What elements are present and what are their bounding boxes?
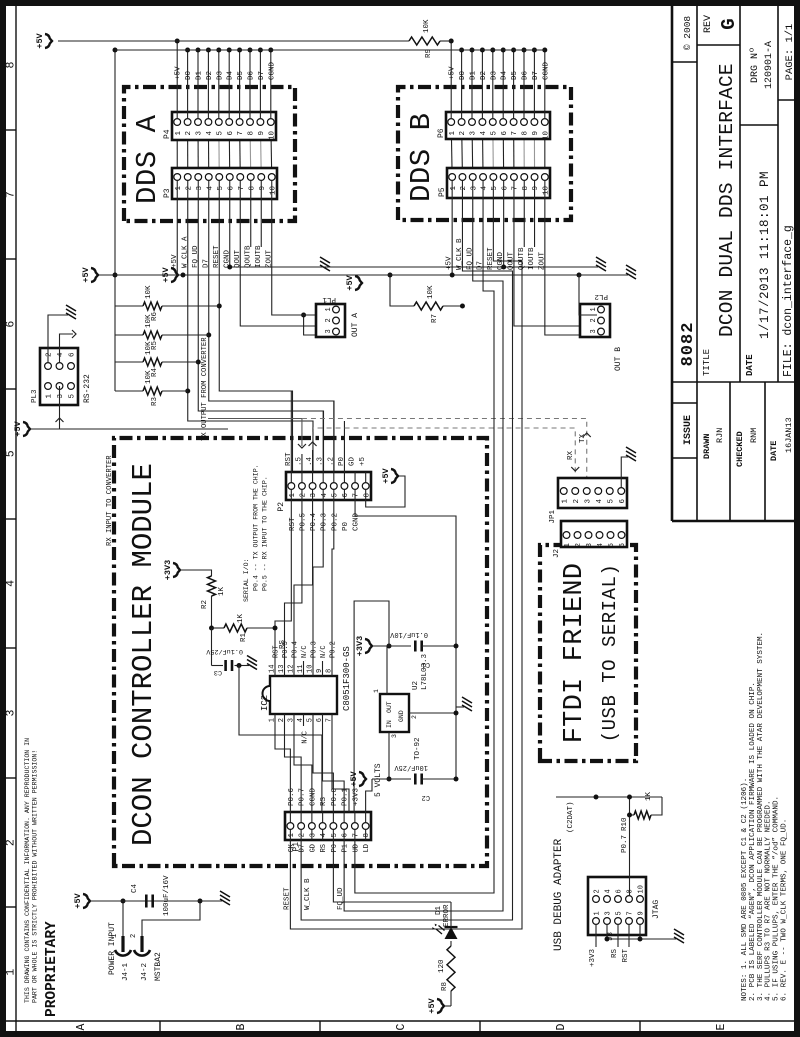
regulator U2 L78L03.3	[373, 653, 429, 760]
wire P2 pin1 to IC2	[275, 500, 291, 661]
svg-text:4: 4	[481, 186, 489, 191]
wire C3 node to P1 RS	[239, 666, 322, 813]
svg-text:2: 2	[325, 318, 333, 322]
svg-text:RS: RS	[320, 796, 328, 806]
svg-text:B: B	[235, 1023, 248, 1030]
svg-text:RS: RS	[320, 844, 328, 852]
svg-text:CGND: CGND	[353, 512, 361, 531]
wire IOUTB B	[534, 198, 536, 247]
svg-text:U2: U2	[412, 681, 420, 690]
IC2 pins	[269, 641, 338, 743]
svg-text:3: 3	[310, 493, 318, 498]
svg-text:J4-1: J4-1	[122, 962, 130, 981]
wire P2 pin2 to IC2	[285, 500, 302, 661]
svg-text:4: 4	[5, 580, 18, 587]
title block texts	[679, 15, 796, 467]
svg-text:7: 7	[352, 833, 360, 838]
svg-text:D1: D1	[470, 70, 478, 80]
svg-text:D: D	[555, 1023, 568, 1030]
svg-text:8: 8	[248, 131, 256, 136]
svg-text:1: 1	[288, 833, 296, 838]
svg-text:N/C: N/C	[301, 645, 309, 658]
svg-text:TO-92: TO-92	[414, 737, 422, 760]
svg-text:2: 2	[185, 186, 193, 191]
svg-text:1K: 1K	[218, 586, 226, 596]
wire P5 +5V	[451, 198, 453, 275]
resistor R9 10K	[380, 19, 451, 58]
svg-text:4: 4	[297, 718, 305, 722]
connector J4-2 pin	[130, 934, 150, 956]
svg-text:TX OUTPUT FROM CONVERTER: TX OUTPUT FROM CONVERTER	[201, 337, 209, 441]
wire FQ_UD A	[196, 199, 324, 472]
svg-text:C4: C4	[131, 883, 139, 893]
svg-text:120: 120	[438, 959, 446, 973]
svg-text:P0.7: P0.7	[299, 788, 307, 806]
svg-text:LD: LD	[363, 844, 371, 852]
wire RESET A	[217, 199, 293, 472]
svg-text:5 VOLTS: 5 VOLTS	[374, 763, 383, 797]
svg-text:P0.4: P0.4	[310, 512, 318, 531]
power +5V input	[73, 892, 90, 908]
svg-text:DATE: DATE	[769, 441, 779, 461]
connector P3	[172, 168, 277, 199]
svg-text:D3: D3	[216, 70, 224, 80]
svg-text:RX: RX	[567, 450, 575, 460]
svg-text:10: 10	[542, 131, 550, 141]
svg-text:D0: D0	[185, 70, 193, 80]
DDS A module dashed box	[124, 87, 295, 221]
svg-text:10: 10	[542, 186, 550, 196]
svg-text:PL1: PL1	[322, 295, 336, 303]
wire power rail	[90, 900, 222, 902]
svg-text:D3: D3	[490, 70, 498, 80]
svg-text:W_CLK B: W_CLK B	[304, 878, 312, 910]
svg-text:R10: R10	[621, 817, 629, 831]
power +5V converter	[13, 420, 30, 436]
svg-text:(C2DAT): (C2DAT)	[567, 801, 575, 833]
svg-text:R5: R5	[151, 341, 159, 351]
wire U2 GND	[409, 707, 464, 716]
svg-text:7: 7	[5, 191, 18, 198]
svg-text:13: 13	[278, 665, 286, 673]
svg-text:+3V3: +3V3	[589, 949, 597, 968]
svg-text:D4: D4	[227, 70, 235, 80]
wire ZOUT B	[545, 198, 597, 335]
svg-text:PAGE: 1/1: PAGE: 1/1	[784, 24, 796, 81]
svg-text:D7: D7	[299, 844, 307, 852]
LED D1	[432, 924, 457, 939]
power +5V top rail	[35, 32, 52, 48]
svg-text:+5V: +5V	[427, 997, 437, 1013]
svg-text:9: 9	[638, 911, 646, 915]
svg-text:R1: R1	[240, 633, 248, 643]
connector J4-1 pin	[111, 934, 131, 956]
svg-text:D6: D6	[522, 70, 530, 80]
serial io note	[243, 464, 269, 602]
resistor R3 10K	[115, 370, 188, 406]
wire IC2 pin3 to P1	[294, 726, 312, 812]
svg-text:2: 2	[130, 934, 138, 938]
svg-text:R3: R3	[151, 397, 159, 407]
resistor R5 10K	[115, 314, 209, 350]
svg-text:6: 6	[501, 186, 509, 191]
dashed RX trunk	[302, 419, 591, 482]
svg-text:TITLE: TITLE	[702, 349, 712, 376]
svg-text:P5: P5	[438, 187, 447, 197]
svg-text:P0: P0	[342, 521, 350, 531]
svg-text:P0.5 -- RX INPUT TO THE CHIP.: P0.5 -- RX INPUT TO THE CHIP.	[262, 476, 269, 591]
svg-text:6: 6	[227, 131, 235, 136]
+5V trunk	[115, 273, 628, 316]
svg-text:1: 1	[5, 969, 18, 976]
connector J2	[561, 521, 627, 548]
svg-text:C1: C1	[422, 660, 430, 668]
svg-text:MSTBA2: MSTBA2	[154, 952, 163, 981]
svg-text:3: 3	[325, 329, 333, 333]
wire QOUTB B	[523, 198, 525, 247]
svg-text:2: 2	[299, 833, 307, 838]
svg-text:1: 1	[269, 718, 277, 722]
svg-text:TX: TX	[579, 433, 587, 443]
svg-text:DRAWN: DRAWN	[702, 433, 712, 459]
power +3V3 main	[355, 636, 372, 656]
svg-text:P0.4 -- TX OUTPUT FROM THE CHI: P0.4 -- TX OUTPUT FROM THE CHIP.	[253, 464, 260, 591]
svg-text:3: 3	[57, 394, 65, 399]
svg-text:2: 2	[46, 352, 54, 357]
svg-text:P0.7: P0.7	[621, 835, 629, 853]
wire IOUTB A	[260, 199, 262, 247]
capacitor C1	[389, 630, 458, 668]
svg-text:2. PCB IS LABELED “AGEN”, DCON: 2. PCB IS LABELED “AGEN”, DCON APPLICATI…	[749, 682, 757, 1001]
power +5V DDS B	[345, 274, 362, 290]
svg-text:D7: D7	[258, 71, 266, 80]
svg-text:7: 7	[512, 186, 520, 191]
svg-text:10K: 10K	[145, 285, 153, 299]
wire J3 RS	[611, 924, 619, 958]
svg-text:R2: R2	[201, 600, 209, 609]
connector P6	[446, 112, 550, 140]
wire P2 pin4 to IC2	[313, 500, 323, 661]
svg-text:4: 4	[320, 833, 328, 838]
wire +3V3 node	[372, 645, 411, 647]
svg-text:5: 5	[616, 911, 624, 915]
DDS B module dashed box	[398, 87, 571, 220]
wire IC2 pin2 to P1	[285, 726, 302, 812]
wire P2 RST out	[290, 391, 292, 472]
svg-text:2: 2	[411, 715, 418, 719]
svg-text:CGND: CGND	[542, 61, 550, 80]
power +5V DDS A	[161, 266, 178, 282]
svg-text:10: 10	[307, 665, 315, 673]
resistor R2 1K	[180, 570, 226, 628]
svg-text:R8: R8	[441, 982, 449, 991]
svg-text:+5V: +5V	[345, 274, 355, 290]
svg-text:3: 3	[196, 186, 204, 191]
svg-text:P0.2: P0.2	[330, 641, 338, 658]
svg-text:P6: P6	[437, 128, 446, 138]
svg-text:OUT: OUT	[386, 701, 393, 713]
svg-text:7: 7	[326, 718, 334, 722]
svg-text:0.1uF/25V: 0.1uF/25V	[205, 647, 243, 655]
svg-text:7: 7	[238, 186, 246, 191]
svg-text:ERROR: ERROR	[443, 904, 451, 927]
capacitor C4	[131, 875, 171, 916]
svg-text:8: 8	[522, 131, 530, 136]
wire P0.0 to LED	[333, 840, 451, 902]
svg-text:1: 1	[594, 911, 602, 915]
svg-text:10uF/25V: 10uF/25V	[394, 763, 428, 771]
solid RX from converter	[208, 419, 302, 447]
svg-text:4: 4	[321, 493, 329, 498]
svg-text:9: 9	[532, 131, 540, 136]
svg-text:5: 5	[331, 833, 339, 838]
svg-text:FTDI FRIEND: FTDI FRIEND	[560, 563, 590, 743]
connector PL1	[316, 304, 345, 337]
svg-text:RS-232: RS-232	[83, 374, 92, 403]
PL3 labels	[31, 374, 92, 403]
svg-text:1: 1	[46, 394, 54, 399]
wire QOUT B	[514, 198, 597, 326]
svg-text:+5V: +5V	[35, 32, 45, 48]
svg-text:IOUTB: IOUTB	[255, 245, 263, 268]
wire RESET out	[283, 198, 522, 929]
svg-text:6: 6	[501, 131, 509, 136]
svg-text:JTAG: JTAG	[652, 900, 661, 919]
wire P2 CGND down	[355, 500, 456, 601]
P2 pin labels	[285, 452, 367, 531]
svg-text:DATE: DATE	[745, 354, 755, 376]
svg-text:7: 7	[627, 911, 635, 915]
svg-text:2: 2	[575, 543, 583, 548]
J3 labels	[607, 900, 661, 941]
svg-text:9: 9	[258, 131, 266, 136]
svg-text:FQ_UD: FQ_UD	[337, 887, 345, 910]
svg-text:PROPRIETARY: PROPRIETARY	[44, 921, 60, 1017]
svg-text:D5: D5	[237, 70, 245, 80]
svg-text:© 2008: © 2008	[682, 16, 693, 51]
LED labels	[435, 904, 451, 927]
svg-text:2: 2	[590, 318, 598, 322]
svg-text:C3: C3	[214, 668, 222, 676]
svg-text:USB DEBUG ADAPTER: USB DEBUG ADAPTER	[553, 838, 565, 951]
svg-text:P2: P2	[277, 502, 286, 512]
svg-text:5: 5	[608, 543, 616, 548]
svg-text:POWER INPUT: POWER INPUT	[108, 922, 117, 975]
svg-text:3: 3	[586, 543, 594, 548]
svg-text:2: 2	[278, 718, 286, 722]
svg-text:12: 12	[288, 665, 296, 673]
wire P2 P0.2 out	[333, 401, 335, 472]
svg-text:PL2: PL2	[594, 292, 608, 300]
svg-text:P0.0: P0.0	[331, 787, 339, 806]
svg-text:QOUTB: QOUTB	[244, 245, 252, 268]
svg-text:5: 5	[216, 131, 224, 136]
power +5V pullups	[81, 266, 98, 282]
svg-text:NOTES: 1. ALL SMD ARE 0805 EXC: NOTES: 1. ALL SMD ARE 0805 EXCEPT C1 & C…	[741, 778, 749, 1001]
svg-text:10K: 10K	[427, 285, 435, 299]
proprietary text	[24, 738, 60, 1017]
data bus rail	[115, 49, 545, 51]
svg-text:2: 2	[460, 186, 468, 191]
connector P5	[447, 168, 550, 198]
svg-text:DRG Nº: DRG Nº	[750, 47, 761, 83]
svg-text:6: 6	[5, 321, 18, 328]
svg-text:DDS B: DDS B	[405, 112, 438, 202]
svg-text:A: A	[75, 1023, 88, 1030]
svg-text:8: 8	[363, 493, 371, 498]
svg-text:GD: GD	[349, 456, 357, 466]
svg-text:P3: P3	[163, 188, 172, 198]
svg-text:5: 5	[307, 718, 315, 722]
svg-text:R7: R7	[431, 314, 439, 323]
svg-text:120901-A: 120901-A	[764, 41, 775, 89]
svg-text:C2: C2	[422, 793, 430, 801]
P1 outer labels	[288, 843, 371, 852]
svg-text:GD: GD	[309, 844, 317, 852]
svg-text:RS: RS	[611, 949, 619, 959]
svg-text:RESET: RESET	[283, 887, 291, 910]
IC IC2 C8051F300 body	[263, 676, 338, 714]
wire CGND B	[503, 198, 505, 267]
svg-text:3: 3	[288, 718, 296, 722]
svg-text:RJN: RJN	[715, 428, 725, 443]
svg-text:100uF/16V: 100uF/16V	[163, 875, 171, 916]
svg-text:0.1uF/10V: 0.1uF/10V	[389, 630, 428, 638]
svg-text:P0.1: P0.1	[342, 787, 350, 806]
svg-text:6: 6	[619, 543, 627, 548]
svg-text:+5V: +5V	[175, 66, 183, 80]
svg-text:D6: D6	[248, 70, 256, 80]
wire P2 pin5 to IC2	[332, 500, 334, 661]
svg-text:1: 1	[175, 186, 183, 191]
svg-text:9: 9	[259, 186, 267, 191]
+5V bus rail	[58, 40, 380, 42]
svg-text:1: 1	[564, 543, 572, 548]
resistor R10 1K	[621, 791, 662, 831]
connector JP1	[558, 478, 627, 508]
wire W_CLK A	[185, 199, 313, 472]
svg-text:4: 4	[597, 543, 605, 548]
svg-text:RS: RS	[279, 639, 287, 649]
wire ZOUT A	[272, 199, 332, 315]
svg-text:+5: +5	[359, 456, 367, 466]
wire J4-2	[142, 899, 203, 937]
connector PL3 RS-232	[40, 348, 78, 405]
svg-text:RST: RST	[622, 949, 630, 963]
FTDI FRIEND dashed box	[540, 545, 636, 761]
svg-text:J2: J2	[553, 549, 561, 558]
svg-text:2: 2	[594, 889, 602, 893]
wire U2 IN	[387, 732, 392, 782]
ground power	[220, 891, 230, 905]
svg-text:3: 3	[5, 709, 18, 716]
svg-text:1K: 1K	[645, 791, 653, 801]
svg-text:UD: UD	[352, 844, 360, 852]
wire P2 P0.4 out	[309, 442, 317, 472]
wire spare out	[355, 198, 494, 893]
svg-text:R6: R6	[151, 312, 159, 322]
svg-text:GND: GND	[398, 710, 405, 722]
capacitor C3	[205, 628, 249, 676]
wire CGND A	[229, 199, 231, 267]
svg-text:1K: 1K	[237, 613, 245, 623]
wire IC2 pin5 to P1	[313, 726, 333, 812]
wire IC2 pin6 to P1	[323, 726, 345, 812]
power +3V3 R2	[163, 560, 180, 580]
PL3 pin6 ground wire	[48, 315, 68, 362]
wire J3 +3V3	[589, 924, 597, 967]
ground PL2 trunk	[626, 265, 636, 279]
svg-text:4. PULLUPS R3 TO R7 ARE NOT NO: 4. PULLUPS R3 TO R7 ARE NOT NORMALLY NEE…	[765, 800, 773, 1001]
svg-text:E: E	[715, 1023, 728, 1030]
svg-text:D5: D5	[511, 70, 519, 80]
svg-text:6: 6	[227, 186, 235, 191]
svg-text:1: 1	[373, 689, 380, 693]
resistor R1 1K	[209, 613, 278, 642]
P5 pin labels	[446, 180, 547, 270]
wire P2 P0.3 out	[322, 411, 324, 472]
wire LED to P0.0	[450, 902, 452, 927]
wire P0.7 C2DAT	[556, 795, 662, 896]
svg-text:P0.3: P0.3	[311, 641, 319, 658]
svg-text:+5V: +5V	[13, 420, 23, 436]
ground C3	[247, 656, 257, 670]
svg-text:(USB TO SERIAL): (USB TO SERIAL)	[599, 564, 621, 743]
svg-text:FILE: dcon_interface_g: FILE: dcon_interface_g	[782, 225, 795, 377]
wire IC2 pin1 to P1	[275, 726, 290, 812]
P4 wires and labels	[175, 39, 277, 120]
svg-text:1: 1	[289, 493, 297, 498]
svg-text:5: 5	[5, 450, 18, 457]
svg-text:+5V: +5V	[381, 467, 391, 483]
svg-text:1: 1	[325, 307, 333, 311]
svg-text:D0: D0	[459, 70, 467, 80]
wire P1 +5 pin	[366, 779, 372, 812]
connector P1	[285, 812, 371, 840]
power +5V LED	[427, 997, 444, 1013]
svg-text:8: 8	[326, 669, 334, 673]
P1 inner labels	[288, 787, 366, 840]
wire QOUT A	[240, 199, 332, 326]
resistor R8 120	[438, 946, 455, 991]
svg-text:DCON DUAL DDS INTERFACE: DCON DUAL DDS INTERFACE	[716, 63, 738, 337]
svg-text:8: 8	[248, 186, 256, 191]
svg-text:5: 5	[607, 499, 615, 504]
svg-text:5: 5	[69, 394, 77, 399]
wire J4-1	[121, 899, 126, 937]
wire U2 OUT to +3V3 node	[387, 644, 392, 695]
svg-text:DCON CONTROLLER MODULE: DCON CONTROLLER MODULE	[127, 463, 160, 846]
P6 to P5 interconnect wires	[451, 122, 545, 177]
svg-text:4: 4	[57, 352, 65, 357]
svg-text:8082: 8082	[679, 322, 698, 367]
svg-text:1: 1	[590, 307, 598, 311]
connector PL2	[580, 304, 610, 337]
svg-text:P0.5: P0.5	[299, 512, 307, 531]
wire IC2 pin7 out	[332, 726, 349, 812]
svg-text:CHECKED: CHECKED	[735, 431, 745, 467]
svg-text:P4: P4	[163, 129, 172, 139]
wire J3 RST	[622, 924, 630, 963]
svg-text:IC2: IC2	[260, 695, 270, 711]
svg-text:9: 9	[532, 186, 540, 191]
connector J3 JTAG	[588, 877, 646, 935]
svg-text:CK: CK	[288, 843, 296, 852]
svg-text:R9: R9	[425, 49, 433, 58]
svg-text:P0.2: P0.2	[331, 513, 339, 531]
svg-text:REV: REV	[703, 15, 714, 33]
svg-text:N/C: N/C	[302, 731, 310, 744]
